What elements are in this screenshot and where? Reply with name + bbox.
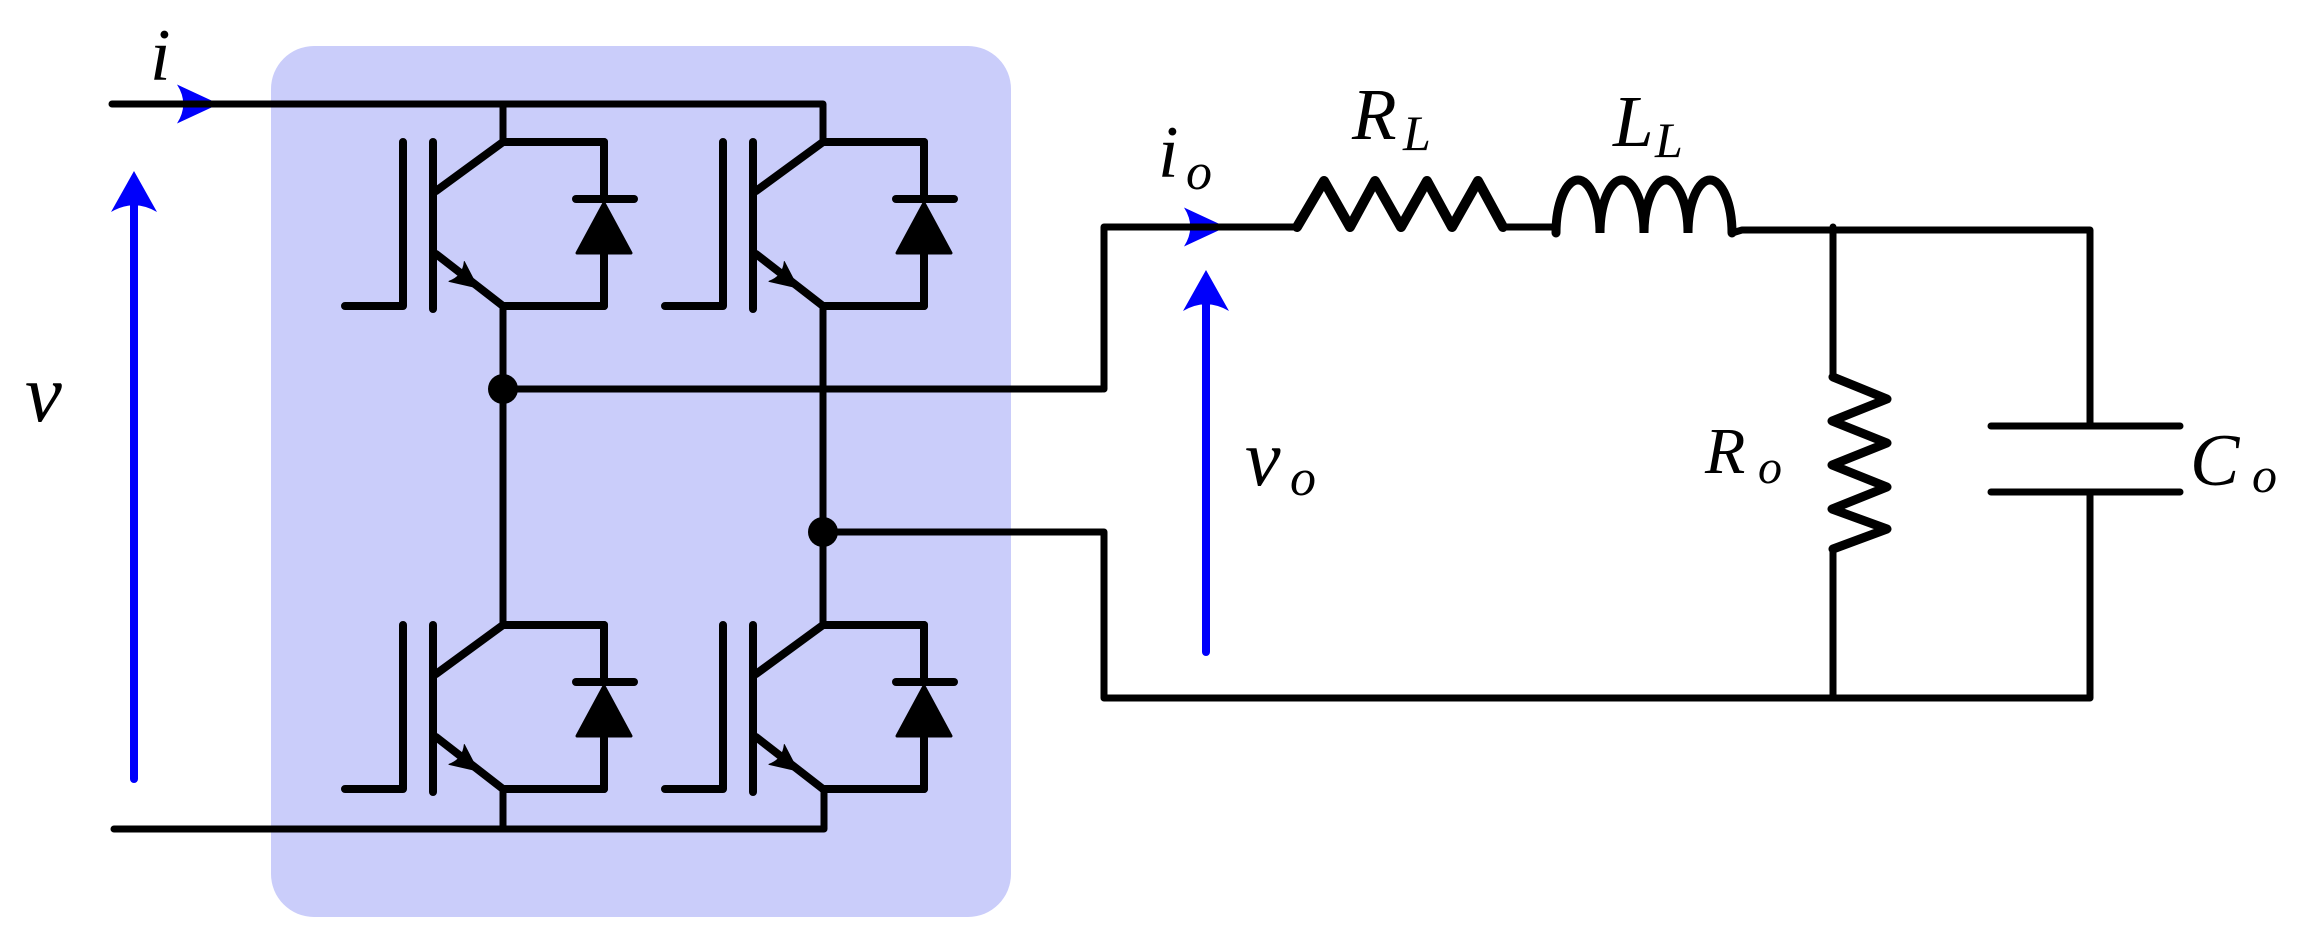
svg-text:C: C [2190, 420, 2241, 502]
svg-text:i: i [1158, 112, 1179, 194]
svg-text:i: i [150, 15, 171, 97]
svg-text:R: R [1351, 74, 1397, 155]
svg-text:o: o [2252, 447, 2277, 503]
svg-text:o: o [1186, 144, 1212, 201]
svg-text:o: o [1290, 450, 1316, 507]
svg-text:v: v [25, 347, 62, 439]
svg-text:v: v [1245, 415, 1281, 503]
svg-text:R: R [1704, 415, 1745, 488]
svg-text:L: L [1612, 81, 1654, 162]
svg-text:L: L [1402, 105, 1431, 161]
svg-text:L: L [1654, 112, 1683, 168]
svg-text:o: o [1758, 441, 1782, 494]
